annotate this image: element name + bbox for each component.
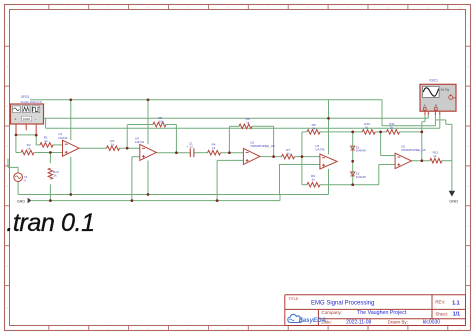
svg-text:1k: 1k xyxy=(53,174,57,178)
svg-text:EasyEDA: EasyEDA xyxy=(299,317,327,324)
svg-text:A: A xyxy=(467,23,469,27)
svg-text:LM741: LM741 xyxy=(135,140,145,144)
svg-text:1k: 1k xyxy=(27,147,31,151)
svg-text:H: H xyxy=(467,306,469,310)
svg-text:Sheet:: Sheet: xyxy=(435,311,448,316)
svg-text:E: E xyxy=(467,184,469,188)
svg-text:B: B xyxy=(6,64,8,68)
svg-text:UA741: UA741 xyxy=(315,148,325,152)
svg-text:klc0030: klc0030 xyxy=(423,320,440,326)
svg-text:E: E xyxy=(6,184,8,188)
svg-text:Sin(1k 100mV 0): Sin(1k 100mV 0) xyxy=(21,100,43,104)
svg-text:10k: 10k xyxy=(159,120,164,124)
svg-text:1k: 1k xyxy=(44,139,48,143)
svg-text:1k: 1k xyxy=(246,121,250,125)
svg-text:1.1: 1.1 xyxy=(452,300,460,306)
svg-text:1u: 1u xyxy=(189,144,193,148)
svg-text:Company:: Company: xyxy=(322,310,343,315)
svg-text:B: B xyxy=(467,64,469,68)
svg-text:OPAMP3PEE_U5: OPAMP3PEE_U5 xyxy=(250,144,275,148)
svg-text:11: 11 xyxy=(426,326,429,330)
svg-text:EMG Signal Processing: EMG Signal Processing xyxy=(311,300,374,306)
svg-text:.tran 0.1: .tran 0.1 xyxy=(6,209,94,237)
svg-text:1N4148: 1N4148 xyxy=(356,149,366,153)
svg-text:1k: 1k xyxy=(212,146,216,150)
svg-text:1k: 1k xyxy=(312,178,316,182)
svg-text:10: 10 xyxy=(386,5,390,9)
svg-text:1/1: 1/1 xyxy=(453,312,460,318)
svg-text:GND: GND xyxy=(17,200,26,204)
svg-text:1k: 1k xyxy=(287,152,291,156)
svg-text:11: 11 xyxy=(426,5,429,9)
svg-text:1k: 1k xyxy=(312,127,316,131)
svg-text:A: A xyxy=(6,23,8,27)
svg-text:LM741: LM741 xyxy=(58,136,68,140)
svg-text:The Vaughen Project: The Vaughen Project xyxy=(357,310,407,316)
svg-text:1k: 1k xyxy=(433,154,437,158)
svg-text:XSC1: XSC1 xyxy=(429,78,438,82)
svg-text:TITLE:: TITLE: xyxy=(288,297,299,301)
svg-text:2022-11-08: 2022-11-08 xyxy=(346,320,371,326)
svg-text:Ext Trig: Ext Trig xyxy=(441,89,450,92)
svg-text:1N4148: 1N4148 xyxy=(356,175,366,179)
svg-text:OPAMP3PEE_U5: OPAMP3PEE_U5 xyxy=(401,148,426,152)
svg-text:XFG1: XFG1 xyxy=(21,95,30,99)
svg-text:1k: 1k xyxy=(390,125,394,129)
svg-text:10: 10 xyxy=(386,326,390,330)
svg-text:1k: 1k xyxy=(365,125,369,129)
svg-text:Drawn By:: Drawn By: xyxy=(388,320,408,325)
svg-text:GND: GND xyxy=(449,198,458,203)
svg-text:A: A xyxy=(424,104,426,108)
svg-text:12: 12 xyxy=(457,326,461,330)
svg-text:COM: COM xyxy=(23,117,31,121)
svg-text:1k: 1k xyxy=(111,143,115,147)
svg-text:+: + xyxy=(186,145,188,149)
svg-text:B: B xyxy=(435,104,437,108)
svg-text:F: F xyxy=(467,224,469,228)
svg-text:REV:: REV: xyxy=(435,300,445,305)
svg-text:H: H xyxy=(6,306,8,310)
svg-text:12: 12 xyxy=(457,5,461,9)
